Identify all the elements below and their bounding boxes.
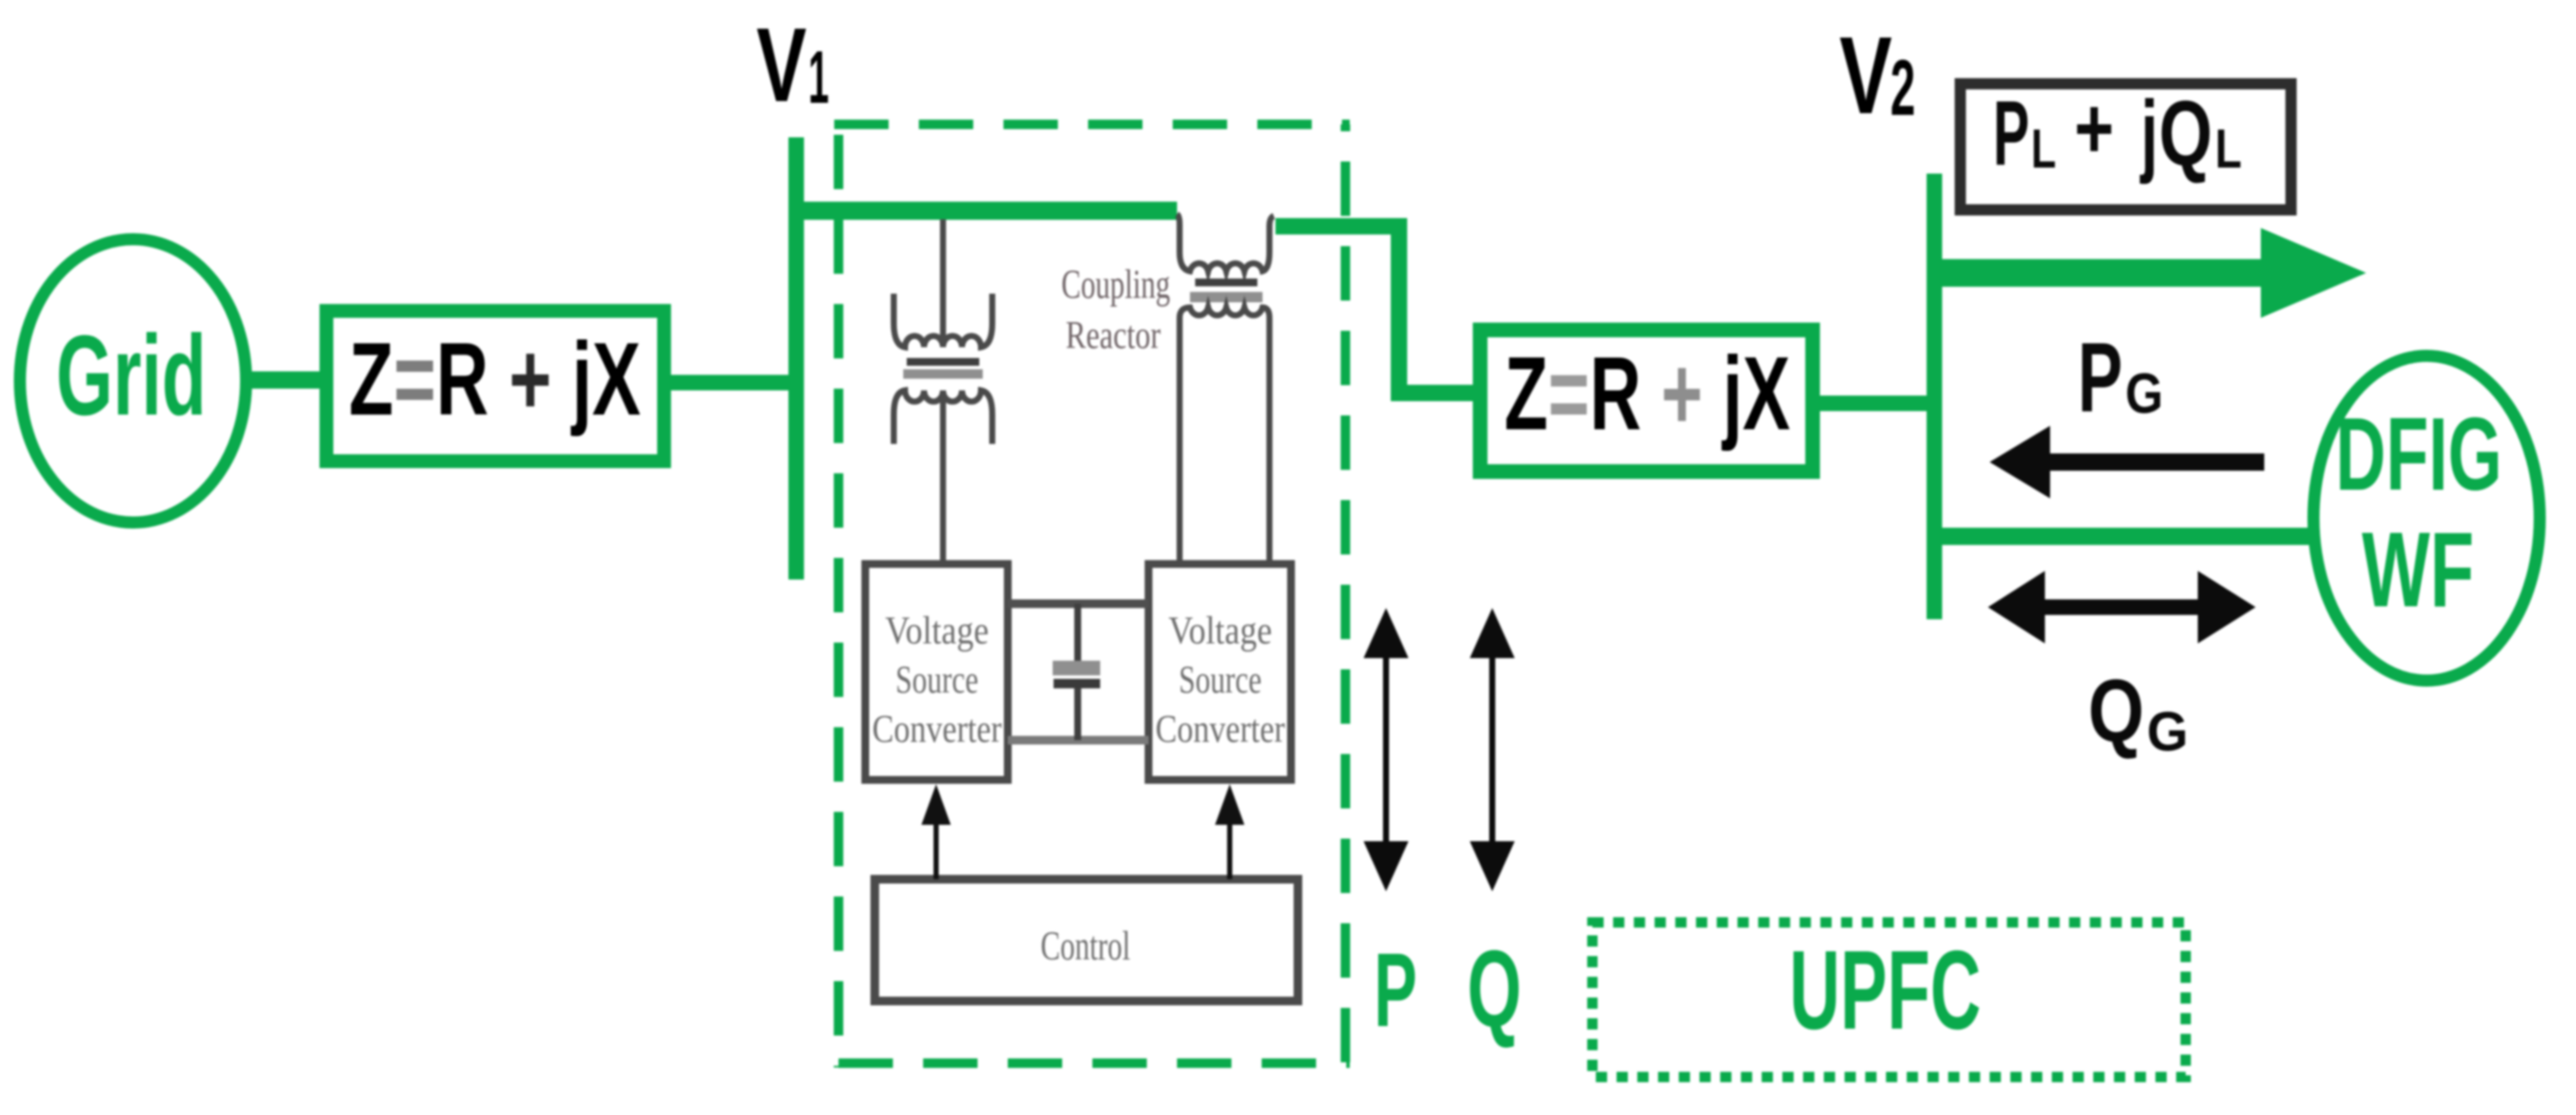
transformer T1 (shunt) bbox=[894, 219, 992, 561]
svg-text:V: V bbox=[1839, 14, 1892, 136]
svg-text:Source: Source bbox=[896, 657, 978, 701]
load box PL+jQL bbox=[1960, 80, 2291, 210]
svg-text:Reactor: Reactor bbox=[1066, 313, 1161, 357]
arrow PG (black, from DFIG to bus) bbox=[1990, 426, 2264, 498]
svg-text:WF: WF bbox=[2362, 511, 2474, 630]
svg-text:Control: Control bbox=[1041, 923, 1130, 969]
svg-text:Q: Q bbox=[2088, 661, 2144, 760]
bus V1 bbox=[788, 137, 804, 580]
wire Z2 to bus V2 bbox=[1813, 396, 1931, 411]
UPFC dashed enclosure bbox=[834, 124, 1350, 1067]
converter VSC2 box bbox=[1149, 564, 1291, 780]
wire DC link top bbox=[1008, 599, 1149, 608]
transformer T2 (series coupling reactor) bbox=[1177, 214, 1274, 561]
arrow QG (black double) bbox=[1988, 571, 2256, 643]
control box bbox=[875, 879, 1298, 1001]
svg-text:Voltage: Voltage bbox=[1168, 608, 1272, 652]
impedance Z1 box Z=R+jX bbox=[326, 311, 664, 461]
impedance Z2 box Z=R+jX bbox=[1480, 330, 1813, 472]
wire Grid to Z1 bbox=[247, 371, 328, 389]
svg-text:+: + bbox=[2074, 80, 2114, 177]
svg-text:P: P bbox=[1993, 81, 2029, 185]
UPFC dotted label box bbox=[1592, 922, 2186, 1077]
svg-text:Source: Source bbox=[1179, 657, 1262, 701]
svg-text:UPFC: UPFC bbox=[1789, 927, 1981, 1053]
svg-text:Grid: Grid bbox=[56, 312, 206, 439]
arrow control to VSC2 bbox=[1215, 784, 1244, 879]
svg-text:V: V bbox=[756, 6, 807, 124]
arrow P exchange (vertical double) bbox=[1364, 608, 1408, 891]
svg-text:DFIG: DFIG bbox=[2336, 396, 2503, 512]
arrow P flow (green, to load) bbox=[1942, 228, 2366, 318]
wire Z1 to bus V1 bbox=[660, 375, 793, 390]
svg-text:Coupling: Coupling bbox=[1061, 262, 1170, 307]
label PG bbox=[2078, 323, 2163, 433]
svg-text:Z=R + jX: Z=R + jX bbox=[1504, 334, 1790, 452]
svg-text:1: 1 bbox=[808, 36, 829, 119]
svg-text:Voltage: Voltage bbox=[885, 608, 989, 652]
svg-text:Converter: Converter bbox=[1155, 706, 1285, 751]
arrow Q exchange (vertical double) bbox=[1470, 608, 1515, 891]
svg-text:G: G bbox=[2125, 361, 2163, 425]
svg-text:2: 2 bbox=[1890, 44, 1915, 132]
capacitor DC link bbox=[1053, 604, 1100, 740]
label V1 bbox=[756, 6, 829, 124]
label QG bbox=[2088, 661, 2188, 763]
arrow control to VSC1 bbox=[921, 784, 951, 879]
wire bus V2 to DFIG bbox=[1942, 528, 2313, 545]
generator DFIG WF bbox=[2313, 356, 2540, 681]
bus V2 bbox=[1927, 174, 1942, 619]
converter VSC1 box bbox=[865, 564, 1008, 780]
svg-text:L: L bbox=[2031, 117, 2056, 180]
svg-text:P: P bbox=[2078, 323, 2123, 433]
svg-text:Z=R + jX: Z=R + jX bbox=[349, 321, 641, 437]
svg-text:Q: Q bbox=[1467, 928, 1522, 1049]
svg-text:Converter: Converter bbox=[872, 706, 1002, 751]
svg-text:P: P bbox=[1374, 931, 1417, 1048]
wire bus V1 into UPFC bbox=[788, 202, 1177, 220]
svg-text:G: G bbox=[2147, 700, 2188, 763]
label V2 bbox=[1839, 14, 1915, 136]
wire DC link bottom bbox=[1008, 736, 1149, 744]
node Grid (source circle) bbox=[20, 239, 246, 523]
svg-text:j: j bbox=[2140, 81, 2158, 185]
wire T2 to Z2 bbox=[1275, 226, 1477, 393]
label Coupling Reactor bbox=[1061, 262, 1170, 357]
svg-text:L: L bbox=[2215, 117, 2242, 180]
svg-text:Q: Q bbox=[2159, 81, 2212, 185]
